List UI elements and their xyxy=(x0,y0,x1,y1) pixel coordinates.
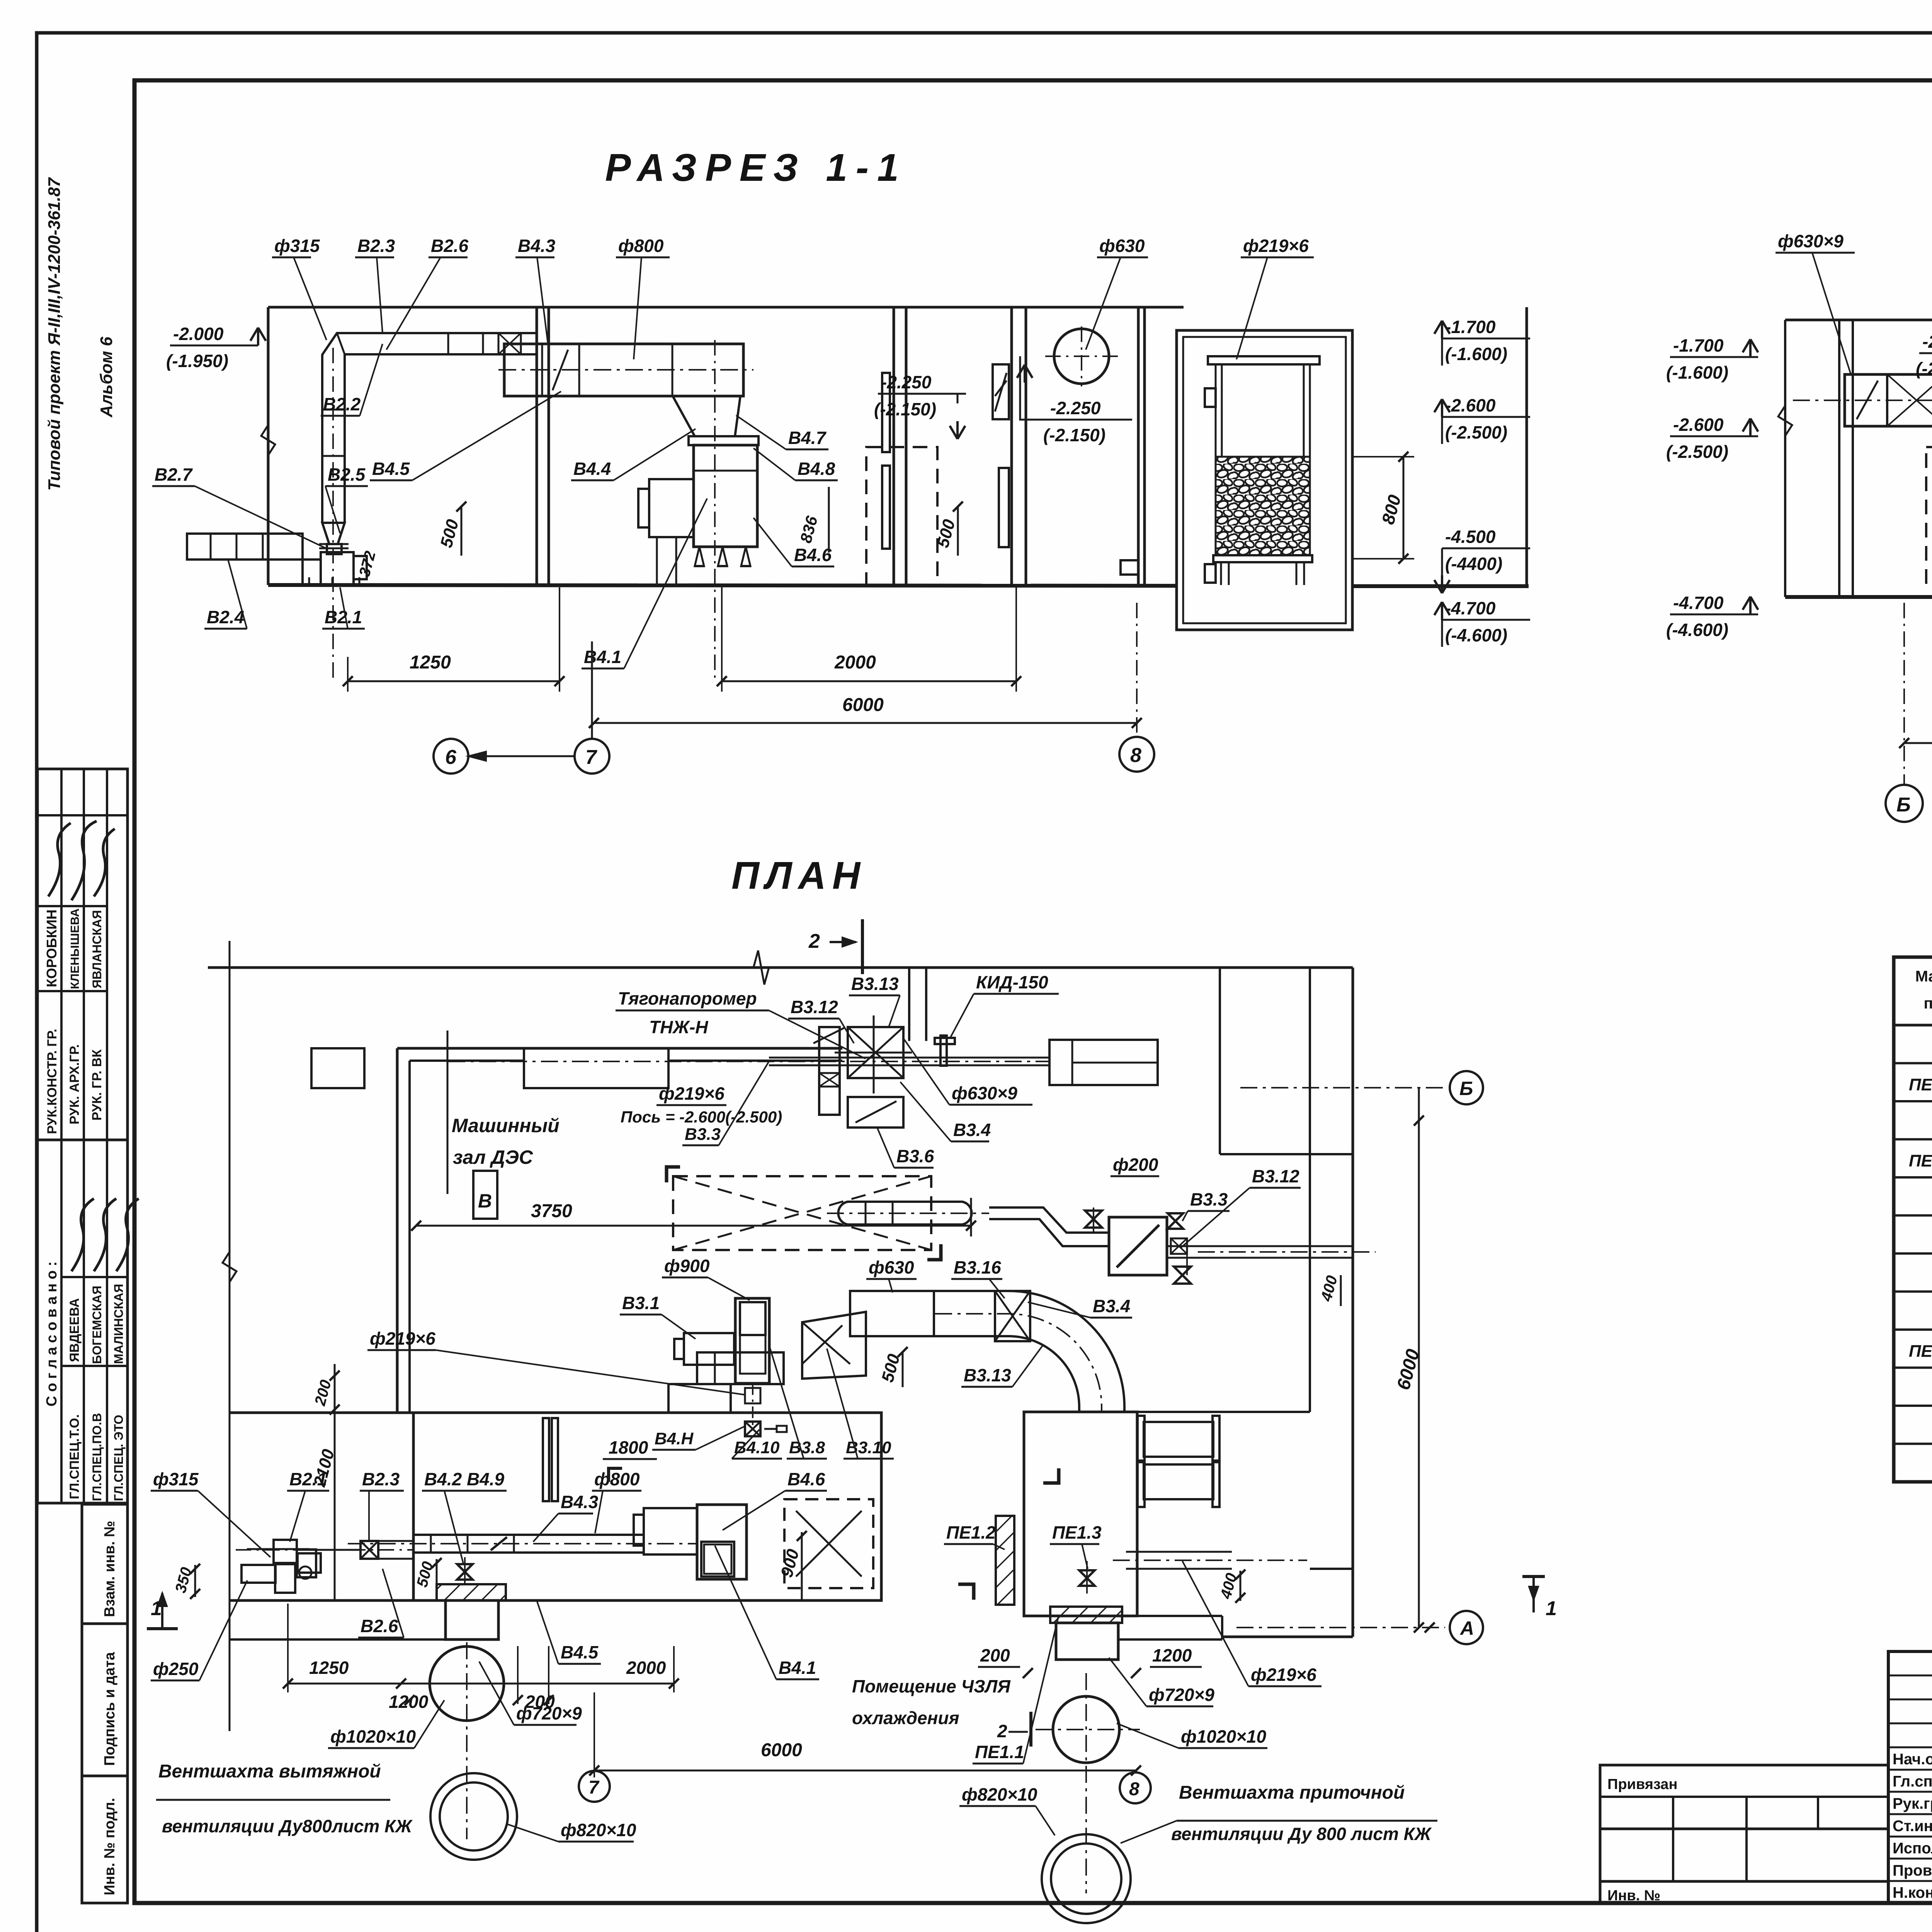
svg-text:2000: 2000 xyxy=(834,652,876,673)
svg-text:КЛЕНЫШЕВА: КЛЕНЫШЕВА xyxy=(68,908,82,989)
svg-text:Инв. № подл.: Инв. № подл. xyxy=(102,1798,118,1895)
plan fan B4.1 scroll plan xyxy=(697,1505,747,1579)
svg-text:ЯВЛАНСКАЯ: ЯВЛАНСКАЯ xyxy=(90,910,104,988)
svg-text:ГЛ.СПЕЦ. ЭТО: ГЛ.СПЕЦ. ЭТО xyxy=(112,1415,126,1501)
svg-text:ПЕ1.3: ПЕ1.3 xyxy=(1909,1342,1932,1361)
dim 836 xyxy=(828,487,830,553)
dim 900 fanroom xyxy=(801,1532,803,1600)
svg-text:ф630: ф630 xyxy=(869,1257,914,1277)
svg-text:Н.контр.: Н.контр. xyxy=(1893,1884,1932,1901)
plan fan room outline xyxy=(413,1413,881,1600)
margin box podpis i data xyxy=(82,1624,128,1776)
svg-text:В2.2: В2.2 xyxy=(323,394,361,414)
svg-text:В3.12: В3.12 xyxy=(1252,1166,1299,1186)
svg-text:8: 8 xyxy=(1130,744,1141,767)
plan valve B4.2/B4.9 xyxy=(457,1564,473,1580)
plan duct west inlet xyxy=(241,1565,276,1583)
plan east strip divider 1 xyxy=(1220,1153,1353,1155)
razrez 1-1 filter box wall C xyxy=(993,364,1009,419)
dim 400 right pipe xyxy=(1240,1571,1242,1601)
svg-text:ф200: ф200 xyxy=(1113,1155,1158,1175)
svg-text:В4.10: В4.10 xyxy=(734,1438,780,1457)
svg-text:В4.1: В4.1 xyxy=(584,647,621,667)
margin box vzam inv xyxy=(82,1504,128,1624)
svg-text:-1.700: -1.700 xyxy=(1445,317,1496,337)
plan north wall xyxy=(208,966,1353,969)
svg-text:БОГЕМСКАЯ: БОГЕМСКАЯ xyxy=(90,1286,104,1364)
svg-text:(-1.950): (-1.950) xyxy=(166,351,228,371)
plan west axis line xyxy=(229,941,231,1731)
margin stamp table rukovoditeli xyxy=(37,769,128,1140)
svg-text:В4.6: В4.6 xyxy=(794,545,832,565)
plan damper B2.3 plan xyxy=(361,1541,378,1559)
svg-text:РУК. АРХ.ГР.: РУК. АРХ.ГР. xyxy=(67,1044,82,1124)
plan machine hall top wall xyxy=(397,1047,842,1050)
svg-text:-4.700: -4.700 xyxy=(1445,598,1496,618)
svg-text:С о г л а с о в а н о :: С о г л а с о в а н о : xyxy=(44,1261,60,1406)
svg-text:Машинный: Машинный xyxy=(452,1115,560,1136)
svg-text:КОРОБКИН: КОРОБКИН xyxy=(44,910,60,987)
plan supply room outline xyxy=(1024,1412,1137,1616)
razrez 1-1 floor line xyxy=(268,585,1177,586)
razrez 1-1 left wall xyxy=(267,307,270,585)
razrez 1-1 damper X B2.6 xyxy=(498,333,521,354)
svg-text:В3.1: В3.1 xyxy=(622,1293,660,1313)
svg-text:В4.7: В4.7 xyxy=(788,428,827,448)
svg-text:2: 2 xyxy=(997,1721,1007,1741)
svg-text:Рук.гр: Рук.гр xyxy=(1893,1795,1932,1812)
svg-text:ф630×9: ф630×9 xyxy=(1778,231,1844,251)
plan B3.1 motor plan xyxy=(684,1333,734,1365)
svg-text:В3.12: В3.12 xyxy=(791,997,838,1017)
plan duct fi630 plan xyxy=(850,1291,934,1336)
svg-text:В3.13: В3.13 xyxy=(964,1365,1011,1385)
plan dim 6000 east xyxy=(1418,1088,1420,1628)
razrez 2-2 wall left pair xyxy=(1838,320,1840,597)
svg-text:500: 500 xyxy=(413,1560,437,1589)
plan shaft duct left xyxy=(446,1600,498,1639)
column circle 6 xyxy=(434,739,468,774)
svg-text:Марка: Марка xyxy=(1915,968,1932,985)
plan pipe fi219 top xyxy=(769,1057,1049,1059)
dim line 6000 s2 xyxy=(1904,742,1932,744)
svg-text:В3.3: В3.3 xyxy=(1190,1189,1228,1209)
svg-text:В2.6: В2.6 xyxy=(431,236,469,256)
razrez 1-1 wall C pair xyxy=(1010,307,1013,586)
razrez 1-1 centerline B4 xyxy=(714,340,716,680)
signatures rук. group xyxy=(48,823,71,896)
svg-text:В2.1: В2.1 xyxy=(325,607,362,627)
svg-text:РАЗРЕЗ 1-1: РАЗРЕЗ 1-1 xyxy=(605,146,907,189)
svg-text:В: В xyxy=(478,1190,492,1212)
svg-text:Нач.отд.: Нач.отд. xyxy=(1893,1751,1932,1768)
razrez 1-1 gravel box bottom xyxy=(1213,555,1312,562)
svg-text:ф630: ф630 xyxy=(1099,236,1145,256)
column circle 7 xyxy=(575,739,609,774)
svg-text:(-2.150): (-2.150) xyxy=(1043,425,1105,445)
svg-text:МАЛИНСКАЯ: МАЛИНСКАЯ xyxy=(112,1284,126,1364)
plan PE1.3 valve xyxy=(1079,1570,1095,1586)
dim 500 plan xyxy=(902,1352,904,1387)
svg-text:ПЕ1.2: ПЕ1.2 xyxy=(1909,1151,1932,1170)
razrez 1-1 right wall xyxy=(1526,307,1528,586)
margin box inv no podl xyxy=(82,1776,128,1903)
dim line 6000 plan xyxy=(594,1770,1136,1772)
plan duct riser pair xyxy=(908,967,910,1041)
svg-text:800: 800 xyxy=(1378,493,1405,527)
break mark left wall xyxy=(261,425,275,455)
svg-text:В2.3: В2.3 xyxy=(362,1469,400,1489)
svg-text:В4.Н: В4.Н xyxy=(655,1429,694,1448)
plan axis circle B plan xyxy=(1450,1071,1483,1104)
plan heater B3.13 box xyxy=(848,1027,903,1078)
column circle 8 plan xyxy=(1120,1772,1151,1803)
margin stamp table soglasovano xyxy=(37,1140,128,1503)
plan south wall right xyxy=(1222,1636,1353,1638)
plan fan B2.1 plan xyxy=(274,1540,297,1563)
plan transition plan xyxy=(802,1312,866,1379)
razrez 1-1 cyclone cone B2.5 xyxy=(322,523,345,544)
svg-text:В4.8: В4.8 xyxy=(798,459,835,479)
razrez 1-1 pit stub bottom xyxy=(1205,564,1216,583)
svg-text:В2.7: В2.7 xyxy=(155,464,193,485)
razrez 1-1 inlet duct B2.4 xyxy=(187,534,303,560)
svg-text:В4.4: В4.4 xyxy=(573,459,611,479)
plan east strip vertical xyxy=(1219,968,1221,1154)
svg-text:Типовой проект Я-II,III,IV-12: Типовой проект Я-II,III,IV-1200-361.87 xyxy=(45,177,64,491)
svg-text:В4.1: В4.1 xyxy=(779,1658,816,1678)
razrez 1-1 transition B4.7 xyxy=(673,396,740,436)
svg-text:В4.3: В4.3 xyxy=(561,1492,599,1512)
svg-text:В3.13: В3.13 xyxy=(851,974,899,994)
svg-text:-2.250: -2.250 xyxy=(1050,398,1101,418)
plan corner bracket b xyxy=(958,1584,974,1600)
dim line 6000 razrez1 xyxy=(594,722,1137,724)
dim line 1250 plan xyxy=(288,1683,401,1685)
svg-text:8: 8 xyxy=(1129,1779,1139,1799)
svg-text:-2.000: -2.000 xyxy=(173,324,224,344)
svg-text:охлаждения: охлаждения xyxy=(852,1708,959,1728)
dim 500 b xyxy=(957,507,959,556)
razrez 1-1 wall D xyxy=(1137,307,1140,586)
spec table grid xyxy=(1894,957,1932,1482)
plan vent shaft double circle right xyxy=(1042,1834,1131,1923)
svg-text:Вентшахта вытяжной: Вентшахта вытяжной xyxy=(158,1761,381,1782)
razrez 1-1 duct circle fi630 xyxy=(1054,329,1109,384)
plan silencer capsule xyxy=(838,1202,971,1225)
svg-text:Исполн.: Исполн. xyxy=(1893,1840,1932,1857)
plan axis line B xyxy=(1240,1087,1445,1088)
razrez 1-1 flange plate xyxy=(689,436,759,445)
plan mash hall south wall xyxy=(230,1412,413,1414)
razrez 2-2 ceiling line xyxy=(1785,319,1932,321)
svg-text:ф820×10: ф820×10 xyxy=(962,1784,1037,1804)
plan east strip divider 2 xyxy=(1310,1568,1353,1570)
svg-text:В4.6: В4.6 xyxy=(787,1469,825,1489)
svg-text:2: 2 xyxy=(808,930,820,952)
svg-text:В2.3: В2.3 xyxy=(357,236,395,256)
svg-text:500: 500 xyxy=(437,517,462,549)
plan axis line A xyxy=(1236,1627,1445,1628)
plan section mark 1 bottom left xyxy=(161,1593,163,1629)
svg-text:(-2.150): (-2.150) xyxy=(1916,359,1932,379)
svg-text:-2.600: -2.600 xyxy=(1673,415,1724,435)
svg-text:ПЕ1.1: ПЕ1.1 xyxy=(1909,1075,1932,1094)
svg-text:Провер.: Провер. xyxy=(1893,1862,1932,1879)
svg-text:Инв. №: Инв. № xyxy=(1607,1888,1660,1904)
plan louver panels xyxy=(543,1418,549,1501)
razrez 2-2 floor line xyxy=(1785,595,1932,599)
svg-text:400: 400 xyxy=(1217,1571,1240,1601)
plan dashed zone xyxy=(673,1176,931,1250)
plan box on wall left xyxy=(311,1048,364,1088)
svg-text:РУК.КОНСТР. ГР.: РУК.КОНСТР. ГР. xyxy=(45,1029,60,1134)
svg-text:В4.3: В4.3 xyxy=(518,236,556,256)
svg-text:(-4400): (-4400) xyxy=(1445,554,1502,574)
svg-text:ТНЖ-Н: ТНЖ-Н xyxy=(649,1017,708,1037)
razrez 1-1 fan feet xyxy=(695,547,704,566)
plan east wall outer xyxy=(1352,968,1354,1637)
razrez 1-1 horizontal duct top xyxy=(425,332,537,334)
svg-text:(-1.600): (-1.600) xyxy=(1666,362,1728,383)
plan vent shaft big circle right xyxy=(1053,1696,1119,1763)
dim 500 a xyxy=(461,507,463,556)
razrez 1-1 fan B4.8 xyxy=(694,445,757,547)
plan niche xyxy=(524,1048,668,1088)
svg-text:(-1.600): (-1.600) xyxy=(1445,344,1507,364)
dim 350 vert xyxy=(194,1565,196,1597)
svg-text:-2.250: -2.250 xyxy=(881,372,932,392)
plan vent shaft double circle left xyxy=(430,1773,517,1860)
razrez 1-1 gravel fill xyxy=(1216,457,1310,555)
razrez 1-1 duct elbow xyxy=(322,333,425,378)
svg-text:В2.6: В2.6 xyxy=(361,1616,398,1636)
svg-text:2000: 2000 xyxy=(626,1658,666,1678)
razrez 1-1 vertical duct B2.2 xyxy=(321,378,323,523)
svg-text:В3.6: В3.6 xyxy=(896,1146,934,1166)
svg-text:поз.: поз. xyxy=(1923,995,1932,1012)
svg-text:ф630×9: ф630×9 xyxy=(952,1083,1017,1103)
plan dashed square room xyxy=(784,1499,873,1588)
svg-text:ф900: ф900 xyxy=(664,1256,710,1276)
svg-text:ф820×10: ф820×10 xyxy=(561,1820,636,1840)
svg-text:1: 1 xyxy=(151,1597,162,1620)
svg-text:КИД-150: КИД-150 xyxy=(976,972,1048,992)
svg-text:Пось = -2.600(-2.500): Пось = -2.600(-2.500) xyxy=(621,1108,782,1126)
svg-text:ПЕ1.3: ПЕ1.3 xyxy=(1052,1522,1102,1543)
column circle B s2 xyxy=(1886,785,1923,822)
plan box B3.6 xyxy=(848,1097,903,1128)
svg-text:ф315: ф315 xyxy=(153,1469,199,1489)
svg-text:(-4.600): (-4.600) xyxy=(1445,625,1507,645)
svg-text:1800: 1800 xyxy=(609,1437,648,1458)
svg-text:1250: 1250 xyxy=(410,652,451,673)
svg-text:Привязан: Привязан xyxy=(1607,1776,1677,1793)
svg-text:ГЛ.СПЕЦ.Т.О.: ГЛ.СПЕЦ.Т.О. xyxy=(67,1414,82,1499)
svg-text:В3.16: В3.16 xyxy=(954,1257,1001,1277)
svg-text:ЯВДЕЕВА: ЯВДЕЕВА xyxy=(67,1298,82,1362)
plan PE1.2 hatched panel xyxy=(996,1516,1014,1605)
svg-text:ф219×6: ф219×6 xyxy=(659,1083,724,1104)
plan machine hall west wall xyxy=(396,1048,399,1413)
svg-text:(-2.500): (-2.500) xyxy=(1445,422,1507,442)
svg-text:350: 350 xyxy=(172,1565,195,1595)
svg-text:500: 500 xyxy=(878,1352,903,1384)
plan B3.5 boxes xyxy=(819,1027,840,1115)
svg-text:200: 200 xyxy=(980,1645,1010,1665)
razrez 1-1 pit walls xyxy=(1177,330,1352,630)
svg-text:Вентшахта приточной: Вентшахта приточной xyxy=(1179,1782,1405,1803)
svg-text:-2.250: -2.250 xyxy=(1922,332,1932,352)
svg-text:В3.4: В3.4 xyxy=(953,1120,991,1140)
razrez 1-1 grille wall C low xyxy=(999,468,1009,547)
svg-text:ПЛАН: ПЛАН xyxy=(731,854,866,897)
svg-text:Альбом 6: Альбом 6 xyxy=(97,337,116,418)
razrez 1-1 small stub wall D xyxy=(1121,560,1138,575)
svg-text:Ст.инж.: Ст.инж. xyxy=(1893,1818,1932,1835)
svg-text:200: 200 xyxy=(311,1378,335,1408)
svg-text:6: 6 xyxy=(445,746,457,769)
plan mash hall east wall xyxy=(970,1198,972,1236)
plan east wall inner xyxy=(1309,968,1311,1412)
svg-text:В4.2 В4.9: В4.2 В4.9 xyxy=(424,1469,505,1489)
svg-text:836: 836 xyxy=(796,514,821,545)
plan fi219 riser plan xyxy=(745,1388,760,1403)
plan vertical duct to room xyxy=(1078,1407,1080,1412)
svg-text:400: 400 xyxy=(1318,1274,1341,1303)
razrez 1-1 dashed opening xyxy=(866,447,937,585)
razrez 1-1 wall A pair xyxy=(536,307,538,585)
plan pipe fi219 right xyxy=(1126,1551,1232,1553)
title block privyazan box xyxy=(1600,1765,1888,1829)
dim 800 vertical xyxy=(1403,457,1405,559)
plan shaft flange right xyxy=(1050,1607,1122,1623)
razrez 2-2 heater block fi630x9 xyxy=(1845,374,1932,426)
svg-text:Б: Б xyxy=(1459,1078,1473,1099)
svg-text:1250: 1250 xyxy=(309,1658,349,1678)
plan fan top boxes xyxy=(668,1384,731,1413)
svg-text:ф1020×10: ф1020×10 xyxy=(1181,1726,1266,1747)
column axis 7 line xyxy=(591,641,593,739)
plan axis circle A plan xyxy=(1450,1611,1483,1644)
svg-text:ф720×9: ф720×9 xyxy=(1149,1685,1214,1705)
svg-text:В2.5: В2.5 xyxy=(328,464,366,485)
svg-text:Подпись и дата: Подпись и дата xyxy=(102,1652,118,1766)
plan room divider east xyxy=(1137,1411,1310,1413)
plan south wall left xyxy=(230,1599,413,1602)
svg-text:В4.5: В4.5 xyxy=(372,459,410,479)
svg-text:Помещение ЧЗЛЯ: Помещение ЧЗЛЯ xyxy=(852,1676,1011,1696)
svg-text:В3.4: В3.4 xyxy=(1093,1296,1130,1316)
plan shaft duct right xyxy=(1056,1623,1118,1660)
svg-text:6000: 6000 xyxy=(842,695,884,715)
razrez 1-1 pit stub top xyxy=(1205,388,1216,407)
svg-text:ГЛ.СПЕЦ.ПО.В: ГЛ.СПЕЦ.ПО.В xyxy=(90,1413,104,1501)
svg-text:ф800: ф800 xyxy=(618,236,664,256)
svg-text:3750: 3750 xyxy=(531,1201,572,1221)
plan valve B4.N xyxy=(745,1422,760,1436)
svg-text:ф315: ф315 xyxy=(274,236,320,256)
svg-text:372: 372 xyxy=(356,549,379,578)
svg-text:вентиляции Ду800лист КЖ: вентиляции Ду800лист КЖ xyxy=(162,1816,413,1836)
razrez 2-2 heater centerline xyxy=(1793,400,1932,401)
svg-text:вентиляции Ду 800 лист КЖ: вентиляции Ду 800 лист КЖ xyxy=(1171,1824,1432,1844)
svg-text:ПЕ1.2: ПЕ1.2 xyxy=(946,1522,996,1543)
plan PE1.1 devices xyxy=(1144,1422,1213,1457)
razrez 1-1 duct box B4.3 xyxy=(504,344,743,396)
plan pipes to east xyxy=(1229,1245,1353,1247)
title block inv box xyxy=(1600,1829,1888,1881)
svg-text:В3.3: В3.3 xyxy=(685,1125,721,1144)
svg-text:-1.700: -1.700 xyxy=(1673,335,1724,355)
svg-text:1200: 1200 xyxy=(1152,1645,1192,1665)
plan zigzag duct xyxy=(989,1207,1109,1233)
dim 500 fanroom xyxy=(436,1559,438,1590)
svg-text:(-2.150): (-2.150) xyxy=(874,399,936,419)
svg-text:ф219×6: ф219×6 xyxy=(1243,236,1309,256)
svg-text:В3.8: В3.8 xyxy=(789,1438,825,1457)
label V box xyxy=(473,1171,497,1219)
svg-text:Гл.спец.: Гл.спец. xyxy=(1893,1773,1932,1790)
razrez 2-2 dashed opening xyxy=(1926,447,1932,585)
plan corner bracket a xyxy=(1043,1468,1059,1483)
svg-text:ф219×6: ф219×6 xyxy=(370,1328,435,1349)
plan elbow B3.13 plan xyxy=(935,1291,1124,1412)
razrez 1-1 wall B pair xyxy=(893,307,895,585)
arrow 7 to 6 xyxy=(468,755,575,757)
svg-text:ф720×9: ф720×9 xyxy=(516,1703,582,1723)
plan section mark 1 bottom right xyxy=(1522,1575,1545,1578)
column axis 8 line xyxy=(1136,603,1138,737)
plan B3.3 diag box plan xyxy=(1109,1217,1167,1275)
plan duct fi800 plan xyxy=(413,1534,644,1536)
svg-text:В2.4: В2.4 xyxy=(207,607,244,627)
razrez 1-1 motor B4.6 xyxy=(649,479,694,537)
svg-text:РУК. ГР. ВК: РУК. ГР. ВК xyxy=(90,1049,104,1121)
svg-text:1: 1 xyxy=(1546,1597,1557,1620)
svg-text:-4.700: -4.700 xyxy=(1673,593,1724,613)
razrez 1-1 centerline stack xyxy=(332,348,334,680)
svg-text:Б: Б xyxy=(1896,794,1911,816)
plan shaft flange left xyxy=(437,1584,506,1600)
dim line 1250 xyxy=(348,680,560,682)
plan niche east xyxy=(1049,1040,1158,1085)
razrez 2-2 left edge xyxy=(1784,320,1786,597)
svg-text:ПЕ1.1: ПЕ1.1 xyxy=(975,1742,1024,1762)
svg-text:-2.600: -2.600 xyxy=(1445,395,1496,415)
dim line 2000 xyxy=(722,680,1016,682)
dim line 2000 plan xyxy=(401,1683,674,1685)
title block signature table xyxy=(1888,1651,1932,1903)
razrez 1-1 ceiling line xyxy=(268,306,1184,309)
dim 400 east xyxy=(1340,1275,1342,1306)
plan fan B4.1 motor plan xyxy=(644,1508,697,1554)
svg-text:6000: 6000 xyxy=(761,1740,802,1760)
svg-text:7: 7 xyxy=(588,1777,600,1798)
plan KID-150 device xyxy=(935,1038,955,1044)
svg-text:Взам. инв. №: Взам. инв. № xyxy=(102,1521,118,1617)
svg-text:В4.5: В4.5 xyxy=(561,1642,599,1662)
svg-text:А: А xyxy=(1459,1617,1474,1639)
svg-text:-4.500: -4.500 xyxy=(1445,527,1496,547)
svg-text:(-4.600): (-4.600) xyxy=(1666,620,1728,640)
plan damper B3.16 plan xyxy=(995,1291,1030,1341)
plan vent shaft big circle left xyxy=(430,1646,504,1721)
svg-text:ф800: ф800 xyxy=(594,1469,640,1489)
razrez 1-1 grille panels wall B xyxy=(882,373,890,452)
razrez 1-1 fan B2.1 xyxy=(303,560,321,585)
svg-text:ф219×6: ф219×6 xyxy=(1251,1665,1316,1685)
